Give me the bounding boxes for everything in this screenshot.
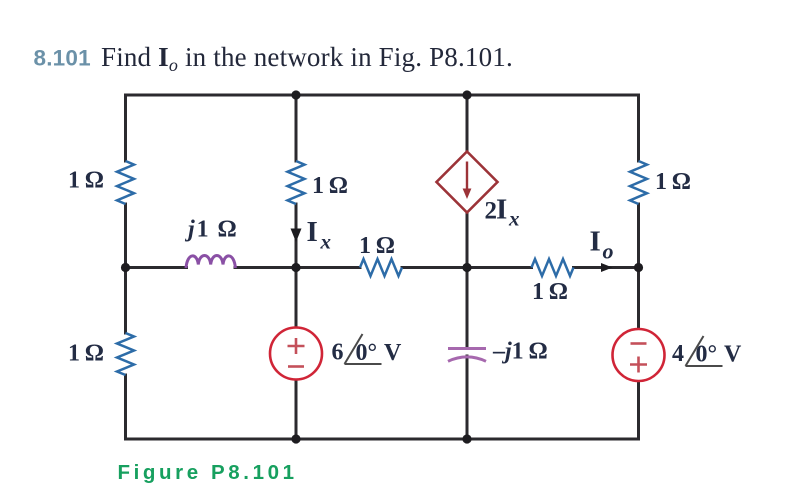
- svg-text:1 Ω: 1 Ω: [312, 173, 348, 199]
- svg-text:o: o: [603, 239, 614, 264]
- svg-text:0°: 0°: [356, 340, 378, 366]
- svg-text:8.101: 8.101: [34, 46, 91, 71]
- svg-text:I: I: [496, 194, 507, 226]
- svg-text:I: I: [307, 216, 318, 248]
- svg-text:j1 Ω: j1 Ω: [184, 217, 239, 243]
- svg-text:Find Io in the network in Fig.: Find Io in the network in Fig. P8.101.: [101, 42, 513, 75]
- svg-text:x: x: [320, 230, 332, 254]
- svg-text:V: V: [384, 340, 402, 366]
- svg-text:4: 4: [672, 341, 684, 367]
- svg-text:1 Ω: 1 Ω: [655, 169, 691, 195]
- svg-text:1 Ω: 1 Ω: [532, 279, 568, 305]
- svg-text:–j1 Ω: –j1 Ω: [492, 339, 548, 365]
- svg-text:1 Ω: 1 Ω: [68, 168, 104, 194]
- svg-text:Figure P8.101: Figure P8.101: [118, 461, 298, 484]
- svg-text:I: I: [590, 226, 601, 258]
- svg-text:6: 6: [332, 340, 344, 366]
- svg-text:V: V: [724, 342, 742, 368]
- svg-text:1 Ω: 1 Ω: [68, 341, 104, 367]
- svg-text:1 Ω: 1 Ω: [359, 233, 395, 259]
- svg-text:x: x: [508, 207, 520, 231]
